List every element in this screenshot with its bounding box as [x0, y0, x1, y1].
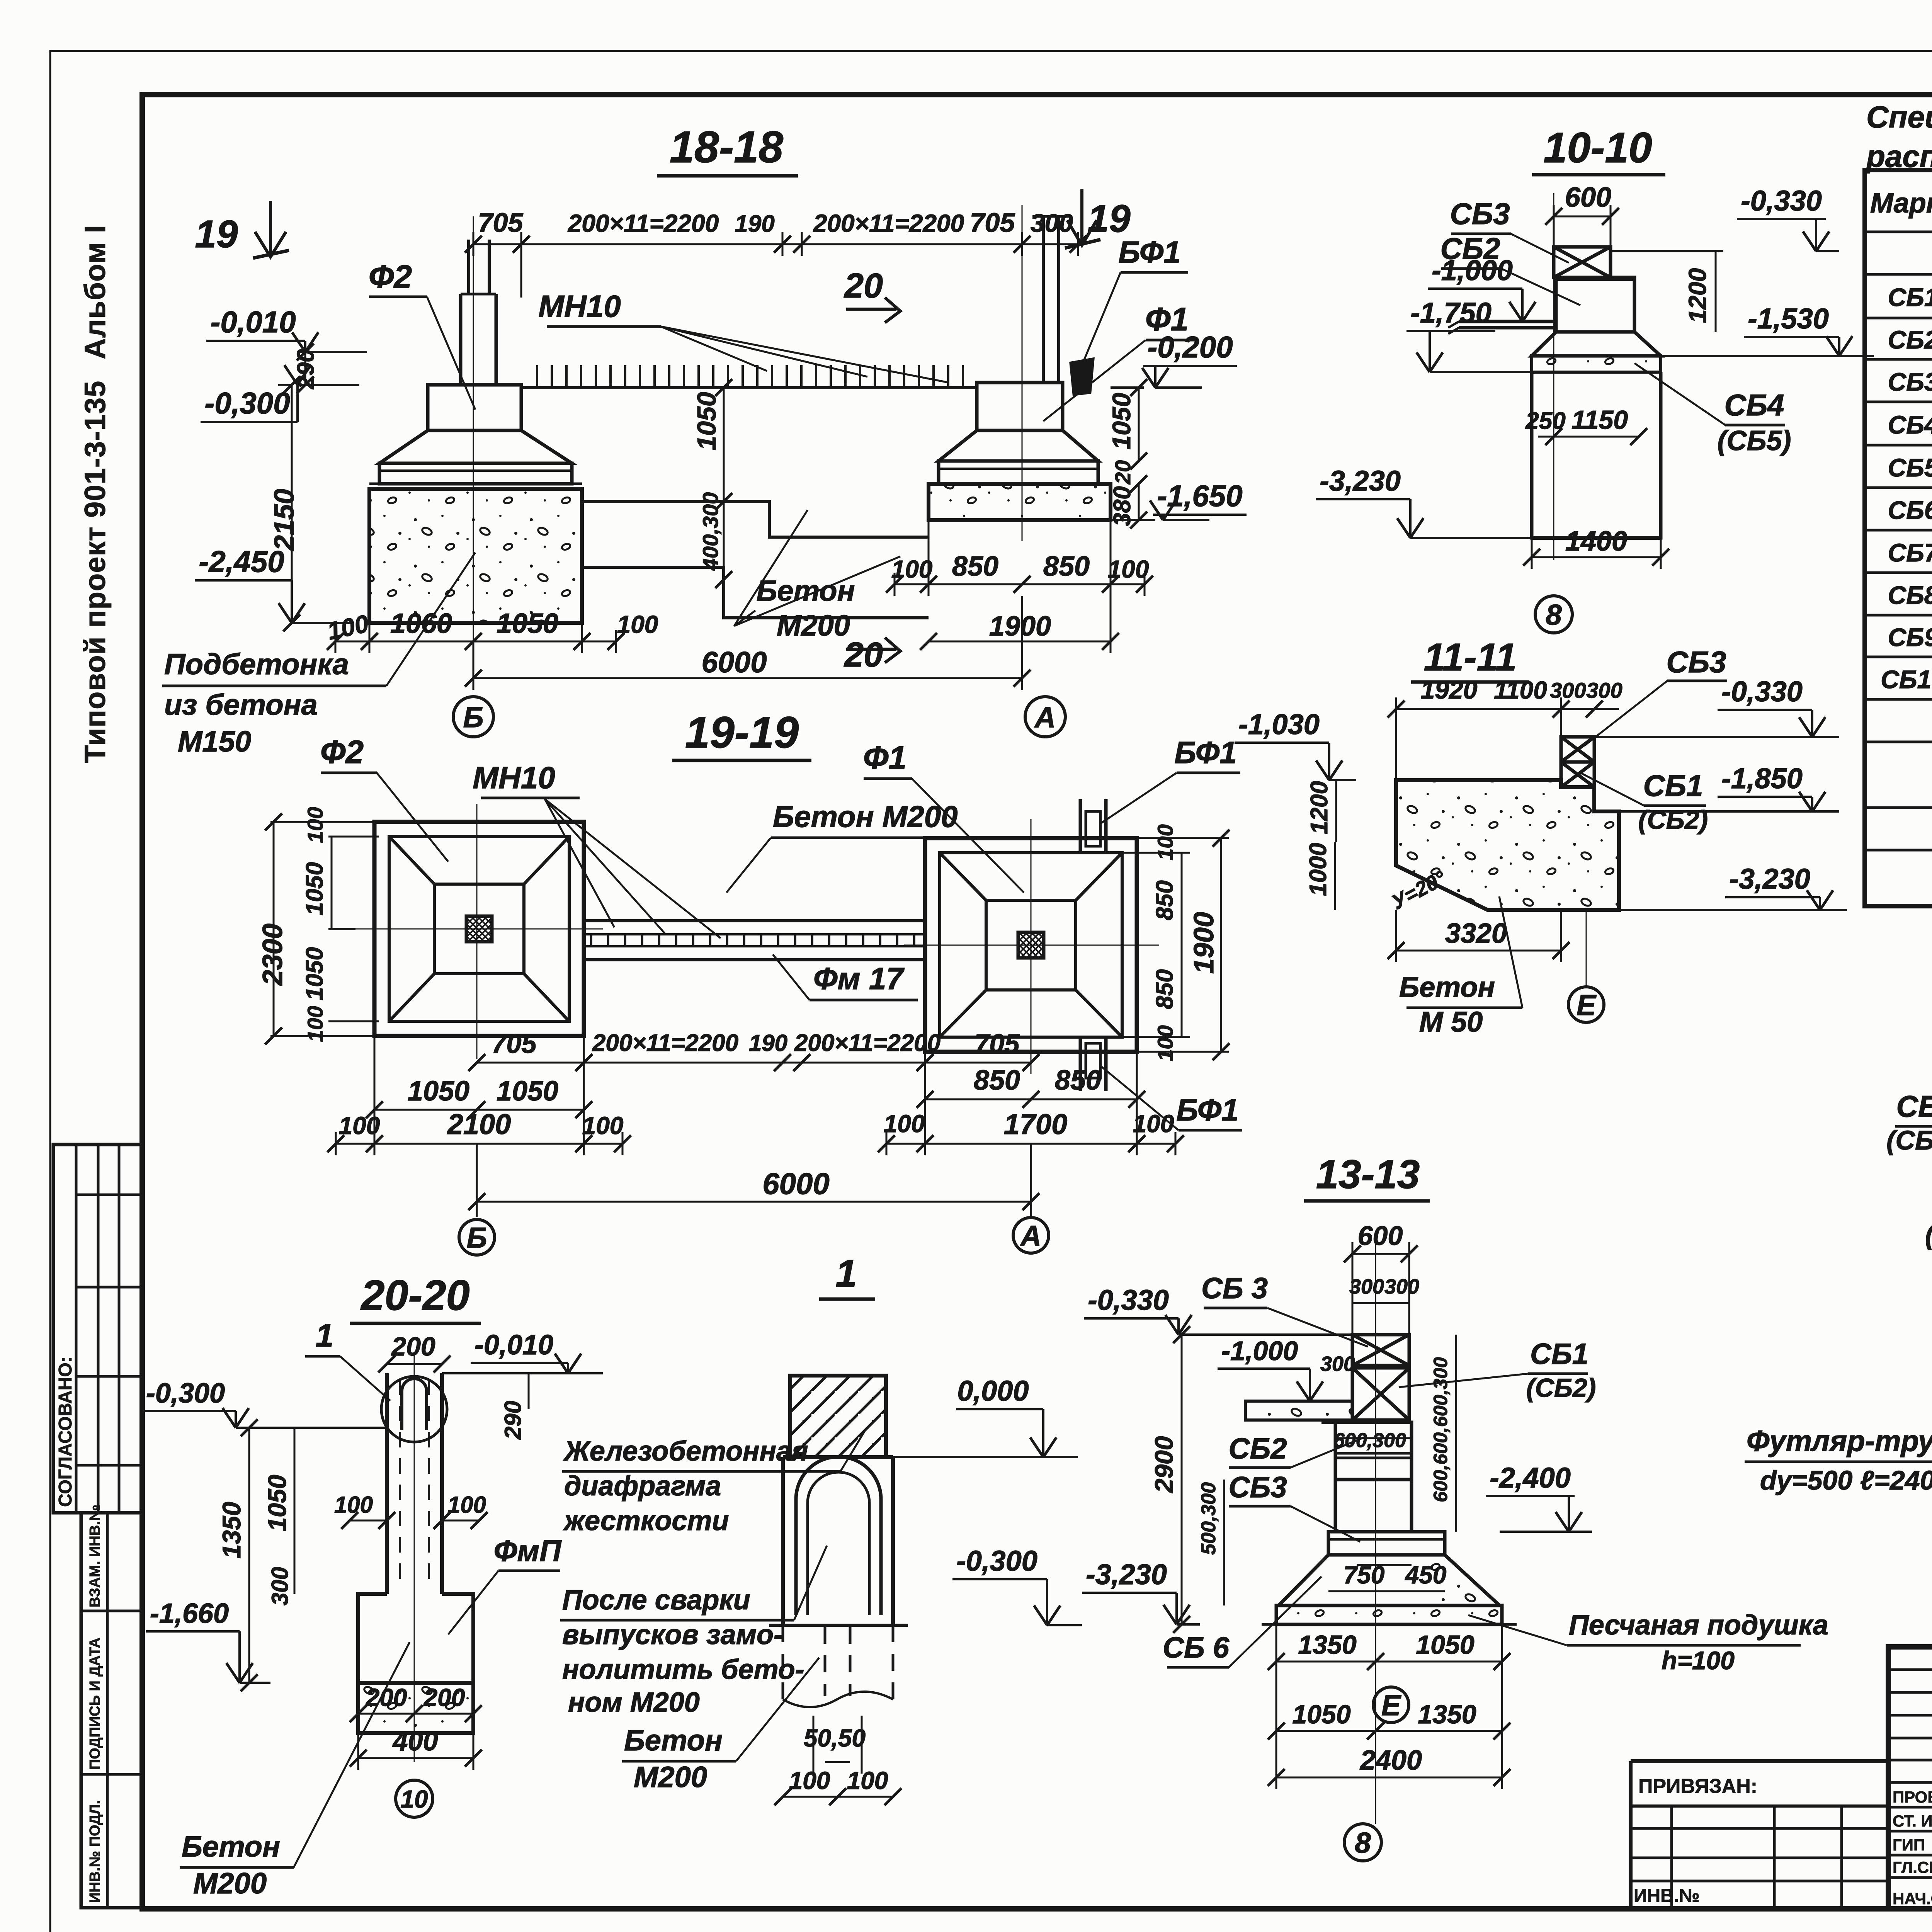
svg-text:850: 850 [1055, 1065, 1101, 1096]
svg-text:МН10: МН10 [538, 289, 621, 323]
svg-text:СБ8: СБ8 [1888, 581, 1932, 609]
svg-text:850: 850 [952, 551, 998, 582]
svg-text:Ф2: Ф2 [369, 259, 412, 295]
svg-text:А: А [1020, 1219, 1041, 1252]
svg-text:-0,200: -0,200 [1147, 330, 1233, 364]
svg-text:750: 750 [1344, 1561, 1385, 1589]
svg-text:СБ4: СБ4 [1725, 388, 1784, 422]
19-19 right column section [1018, 932, 1044, 958]
13-13 crossbox СБ3 top [1352, 1335, 1409, 1366]
11-11 crossbox СБ1 [1561, 737, 1594, 762]
svg-text:СБ1: СБ1 [1888, 283, 1932, 311]
11-11 top dims [1396, 708, 1561, 710]
19-19 dim 100/2100/100 [336, 1143, 374, 1145]
specification table [1865, 170, 1932, 906]
20-20 weld detail circle 1 [381, 1376, 447, 1442]
19-19 centerlines left [476, 804, 478, 1059]
detail 1 column with arc [783, 1455, 893, 1459]
svg-text:6000: 6000 [762, 1167, 830, 1201]
svg-text:1050: 1050 [1416, 1630, 1474, 1660]
svg-text:2900: 2900 [1150, 1436, 1178, 1493]
13-13 dim 600 top [1352, 1253, 1409, 1255]
svg-text:СТ. ИНЖ.: СТ. ИНЖ. [1893, 1812, 1932, 1830]
svg-text:300: 300 [1586, 678, 1622, 702]
svg-text:850: 850 [1043, 551, 1090, 582]
svg-text:h=100: h=100 [1662, 1646, 1735, 1675]
10-10 bottom dims [1538, 436, 1554, 438]
svg-text:ПОДПИСЬ И ДАТА: ПОДПИСЬ И ДАТА [87, 1638, 103, 1770]
svg-text:Ф2: Ф2 [320, 734, 364, 770]
svg-text:dу=500 ℓ=2400: dу=500 ℓ=2400 [1760, 1465, 1932, 1495]
svg-text:ГЛ.СПЕЦ: ГЛ.СПЕЦ [1893, 1858, 1932, 1876]
20-20 column [385, 1373, 389, 1594]
svg-text:10: 10 [400, 1785, 428, 1813]
svg-text:-3,230: -3,230 [1086, 1558, 1167, 1590]
svg-text:Б: Б [463, 701, 483, 733]
svg-text:8: 8 [1546, 599, 1562, 631]
svg-text:1900: 1900 [989, 611, 1051, 642]
svg-text:М150: М150 [178, 725, 251, 758]
svg-text:ном М200: ном М200 [568, 1687, 700, 1718]
svg-text:ГИП: ГИП [1893, 1836, 1925, 1854]
svg-text:СБ9: СБ9 [1888, 623, 1932, 651]
svg-text:Б: Б [466, 1221, 487, 1254]
18-18 foundation F1 (right, axis А) [929, 484, 1111, 520]
svg-text:1: 1 [316, 1317, 334, 1354]
svg-text:1920: 1920 [1421, 675, 1478, 704]
svg-text:600,600,600,300: 600,600,600,300 [1430, 1357, 1451, 1502]
left margin stamp box ИНВ/ПОДПИСЬ [81, 1513, 142, 1908]
svg-text:Фм 17: Фм 17 [813, 961, 905, 996]
svg-text:1050: 1050 [497, 1076, 558, 1107]
18-18 bottom dims right block [895, 583, 929, 585]
18-18 MH10 anchor ticks row [521, 386, 977, 389]
svg-text:СБ3: СБ3 [1229, 1471, 1287, 1504]
20-20 dims top [387, 1363, 442, 1365]
18-18 bottom dims left block [335, 641, 369, 643]
svg-text:жесткости: жесткости [563, 1505, 729, 1536]
privyazan box [1631, 1759, 1888, 1763]
svg-text:3320: 3320 [1445, 918, 1507, 949]
svg-text:(СБ2): (СБ2) [1526, 1373, 1596, 1403]
svg-text:Бетон: Бетон [757, 575, 855, 607]
svg-text:Е: Е [1381, 1689, 1401, 1721]
svg-text:-3,230: -3,230 [1320, 465, 1401, 497]
svg-text:100: 100 [884, 1110, 925, 1138]
svg-text:190: 190 [735, 211, 774, 237]
svg-text:СБ10: СБ10 [1881, 665, 1932, 694]
svg-text:200×11=2200: 200×11=2200 [592, 1030, 738, 1056]
svg-text:200×11=2200: 200×11=2200 [794, 1030, 940, 1056]
11-11 concrete mass [1396, 780, 1619, 910]
svg-text:БФ1: БФ1 [1174, 735, 1237, 770]
20-20 bottom dims [358, 1713, 414, 1715]
10-10 floor slab left [1459, 320, 1556, 323]
svg-text:705: 705 [970, 207, 1015, 238]
svg-text:СБ 6: СБ 6 [1163, 1631, 1230, 1664]
svg-text:Спецификация элементов к марки: Спецификация элементов к маркировочным с… [1866, 100, 1932, 134]
svg-text:250: 250 [1525, 408, 1565, 434]
svg-text:-0,300: -0,300 [204, 386, 290, 420]
svg-text:СБ4: СБ4 [1888, 410, 1932, 439]
20-20 axis circle 10 [396, 1780, 433, 1817]
13-13 plate СБ6 and footing [1328, 1532, 1445, 1555]
svg-text:1350: 1350 [1298, 1630, 1356, 1660]
svg-text:Футляр-труба: Футляр-труба [1747, 1425, 1932, 1458]
svg-text:850: 850 [1151, 880, 1178, 920]
detail 1 squiggle break line [783, 1692, 893, 1707]
svg-text:500,300: 500,300 [1197, 1482, 1220, 1555]
19-19 connecting beam [584, 919, 925, 922]
10-10 trapezoid [1532, 332, 1661, 356]
svg-text:100: 100 [1153, 824, 1177, 860]
18-18 axis circle А [1025, 697, 1065, 737]
10-10 plate band [1532, 356, 1661, 372]
svg-text:705: 705 [478, 207, 524, 238]
svg-text:(СБ2): (СБ2) [1638, 805, 1708, 835]
left margin stamp box СОГЛАСОВАНО [53, 1145, 142, 1513]
detail 1 wall hatched [790, 1376, 886, 1457]
10-10 crossbox СБ3 [1554, 247, 1611, 277]
svg-text:18-18: 18-18 [670, 122, 783, 172]
13-13 bottom dims [1276, 1661, 1376, 1663]
svg-text:400,300: 400,300 [698, 492, 723, 571]
svg-text:1200: 1200 [1306, 781, 1333, 834]
10-10 axis circle 8 [1535, 596, 1572, 633]
svg-text:Бетон М200: Бетон М200 [773, 799, 957, 833]
svg-text:Альбом I: Альбом I [79, 224, 112, 359]
svg-text:100: 100 [447, 1492, 486, 1518]
svg-text:13-13: 13-13 [1316, 1152, 1420, 1197]
svg-text:из бетона: из бетона [164, 689, 318, 721]
svg-text:300: 300 [1320, 1352, 1355, 1376]
svg-text:БФ1: БФ1 [1118, 235, 1181, 269]
svg-text:290: 290 [500, 1401, 526, 1440]
svg-text:300: 300 [1384, 1275, 1419, 1298]
18-18 bottom dim 6000 [473, 677, 1022, 679]
svg-text:600: 600 [1565, 182, 1611, 213]
18-18 top dimension row [473, 243, 521, 245]
19-19 axis circles [459, 1219, 495, 1255]
svg-text:600: 600 [1358, 1221, 1403, 1251]
svg-text:2100: 2100 [447, 1108, 511, 1140]
svg-text:ВЗАМ. ИНВ.№: ВЗАМ. ИНВ.№ [87, 1505, 103, 1607]
svg-text:ИНВ.№ ПОДЛ.: ИНВ.№ ПОДЛ. [87, 1800, 103, 1903]
svg-text:400: 400 [392, 1726, 438, 1756]
svg-text:М 50: М 50 [1419, 1006, 1483, 1038]
svg-text:1050: 1050 [301, 947, 328, 1000]
svg-text:1150: 1150 [1571, 405, 1628, 435]
10-10 block СБ2 [1556, 277, 1634, 332]
svg-text:-0,300: -0,300 [146, 1378, 225, 1409]
svg-text:1700: 1700 [1004, 1108, 1068, 1140]
svg-text:19: 19 [195, 213, 238, 256]
svg-text:СБ6: СБ6 [1888, 496, 1932, 524]
svg-text:СБ3: СБ3 [1888, 367, 1932, 396]
svg-text:1350: 1350 [1418, 1700, 1476, 1729]
svg-text:ПРОВЕР.: ПРОВЕР. [1893, 1788, 1932, 1806]
svg-text:705: 705 [492, 1029, 537, 1059]
svg-text:100: 100 [1153, 1025, 1177, 1061]
svg-text:19-19: 19-19 [685, 708, 799, 757]
svg-text:М200: М200 [777, 609, 850, 642]
svg-text:-1,750: -1,750 [1410, 297, 1492, 329]
svg-text:8: 8 [1355, 1827, 1371, 1859]
svg-text:-0,010: -0,010 [474, 1330, 553, 1361]
svg-text:СБ2: СБ2 [1440, 231, 1500, 265]
svg-text:СБ3: СБ3 [1667, 645, 1726, 679]
svg-text:-0,300: -0,300 [956, 1545, 1037, 1577]
svg-text:ПРИВЯЗАН:: ПРИВЯЗАН: [1638, 1775, 1757, 1798]
svg-text:20: 20 [844, 267, 883, 305]
svg-text:Бетон: Бетон [624, 1724, 723, 1757]
svg-text:850: 850 [974, 1065, 1020, 1096]
svg-text:нолитить бето-: нолитить бето- [562, 1654, 804, 1685]
20-20 dims 100/100 [350, 1520, 387, 1522]
svg-text:100: 100 [334, 1492, 373, 1518]
svg-text:19: 19 [1087, 197, 1131, 240]
svg-text:0,000: 0,000 [957, 1375, 1029, 1407]
svg-text:1050: 1050 [692, 392, 721, 450]
svg-text:600,300: 600,300 [1333, 1429, 1406, 1452]
svg-text:СОГЛАСОВАНО:: СОГЛАСОВАНО: [55, 1356, 76, 1507]
svg-text:А: А [1034, 701, 1056, 733]
19-19 bottom dim row 705/2200 [477, 1062, 584, 1064]
svg-text:200: 200 [391, 1332, 435, 1361]
svg-text:-2,400: -2,400 [1490, 1462, 1571, 1494]
svg-text:-0,330: -0,330 [1741, 185, 1822, 217]
svg-text:СБ2: СБ2 [1888, 325, 1932, 354]
svg-text:100: 100 [617, 611, 658, 638]
svg-text:-1,850: -1,850 [1721, 762, 1803, 794]
18-18 foundation F2 (left, axis Б) [369, 489, 582, 623]
svg-text:Железобетонная: Железобетонная [563, 1436, 808, 1467]
10-10 dim 600 [1554, 216, 1611, 218]
20-20 bottom slab [358, 1683, 473, 1733]
svg-text:300: 300 [1349, 1275, 1384, 1298]
svg-text:1100: 1100 [1494, 676, 1547, 704]
svg-text:300: 300 [1550, 678, 1586, 702]
svg-text:ФмП: ФмП [494, 1534, 562, 1568]
18-18 BF1 element marker [1071, 359, 1093, 394]
svg-text:10-10: 10-10 [1543, 124, 1652, 172]
svg-text:Песчаная подушка: Песчаная подушка [1569, 1610, 1828, 1641]
18-18 axis circle Б [453, 697, 493, 737]
svg-text:М200: М200 [193, 1867, 267, 1900]
20-20 footing [358, 1594, 473, 1683]
svg-text:1050: 1050 [1292, 1700, 1350, 1729]
13-13 left slab [1245, 1401, 1352, 1420]
svg-text:300: 300 [267, 1567, 293, 1605]
svg-text:Подбетонка: Подбетонка [164, 648, 349, 681]
svg-text:11-11: 11-11 [1424, 636, 1517, 679]
svg-text:СБ7: СБ7 [1888, 538, 1932, 567]
19-19 left column section [466, 916, 492, 942]
svg-text:1: 1 [835, 1252, 857, 1295]
13-13 blocks СБ2/СБ3 [1335, 1422, 1412, 1480]
svg-text:СБ1: СБ1 [1896, 1089, 1932, 1123]
svg-text:СБ 3: СБ 3 [1201, 1272, 1268, 1305]
svg-text:-0,330: -0,330 [1088, 1284, 1169, 1316]
svg-text:1050: 1050 [263, 1475, 291, 1531]
svg-text:(СБ5): (СБ5) [1718, 425, 1791, 456]
svg-text:1350: 1350 [217, 1502, 246, 1558]
svg-text:диафрагма: диафрагма [564, 1471, 721, 1502]
svg-text:Е: Е [1577, 989, 1597, 1021]
svg-text:6000: 6000 [701, 646, 767, 679]
svg-text:300: 300 [1031, 209, 1073, 237]
10-10 lower block [1532, 372, 1661, 538]
19-19 dim 6000 [477, 1201, 1031, 1203]
svg-text:200: 200 [423, 1684, 465, 1711]
18-18 step lines between foundations [582, 502, 929, 537]
svg-text:МН10: МН10 [473, 760, 555, 795]
svg-text:-1,530: -1,530 [1748, 303, 1829, 335]
19-19 left footing plan (Ф2) [374, 822, 584, 1036]
svg-text:100: 100 [1108, 555, 1149, 583]
svg-text:Марка: Марка [1870, 188, 1932, 219]
svg-text:450: 450 [1405, 1561, 1447, 1589]
19-19 BF1 strip through right footing [1079, 799, 1082, 853]
svg-text:(СБ5): (СБ5) [1925, 1220, 1932, 1250]
svg-text:-3,230: -3,230 [1729, 863, 1810, 895]
svg-text:выпусков замо-: выпусков замо- [562, 1619, 783, 1650]
svg-text:-0,010: -0,010 [210, 305, 296, 339]
svg-text:20-20: 20-20 [360, 1272, 469, 1319]
13-13 crossbox СБ1 [1352, 1368, 1409, 1420]
19-19 right footing plan (Ф1) [925, 838, 1137, 1052]
19-19 dim 1050/1050 850/850 [374, 1109, 477, 1111]
svg-text:СБ3: СБ3 [1450, 197, 1510, 231]
svg-text:100: 100 [1133, 1110, 1174, 1138]
svg-text:190: 190 [749, 1030, 787, 1056]
svg-text:1050: 1050 [1107, 393, 1136, 449]
11-11 axis circle Е [1568, 987, 1604, 1022]
13-13 inner dims [1335, 1437, 1412, 1439]
svg-text:НАЧ.ОТД.: НАЧ.ОТД. [1893, 1889, 1932, 1908]
svg-text:СБ1: СБ1 [1643, 769, 1703, 803]
svg-text:200×11=2200: 200×11=2200 [813, 209, 964, 237]
svg-text:1900: 1900 [1189, 912, 1219, 974]
svg-text:2150: 2150 [269, 489, 300, 551]
svg-text:Ф1: Ф1 [863, 740, 906, 776]
svg-text:(СБ2): (СБ2) [1886, 1125, 1932, 1155]
title block [1888, 1647, 1932, 1909]
svg-text:1050: 1050 [408, 1076, 469, 1107]
svg-text:М200: М200 [634, 1761, 707, 1794]
svg-text:2400: 2400 [1359, 1745, 1422, 1776]
svg-text:1200: 1200 [1684, 268, 1711, 323]
svg-text:Типовой проект 901-3-135: Типовой проект 901-3-135 [79, 381, 112, 763]
svg-text:100: 100 [847, 1767, 888, 1794]
svg-text:1050: 1050 [301, 862, 328, 915]
svg-text:100: 100 [891, 555, 933, 583]
svg-text:705: 705 [975, 1029, 1020, 1059]
svg-text:ИНВ.№: ИНВ.№ [1634, 1886, 1700, 1906]
svg-text:-1,660: -1,660 [150, 1598, 229, 1629]
svg-text:-1,030: -1,030 [1238, 708, 1320, 740]
svg-text:СБ5: СБ5 [1888, 453, 1932, 482]
svg-text:200×11=2200: 200×11=2200 [568, 209, 719, 237]
svg-text:850: 850 [1151, 969, 1178, 1009]
svg-text:100: 100 [582, 1112, 624, 1139]
svg-text:СБ2: СБ2 [1229, 1432, 1287, 1465]
13-13 axis circles [1373, 1687, 1409, 1723]
svg-text:1050: 1050 [497, 608, 558, 639]
svg-text:-0,330: -0,330 [1721, 675, 1803, 707]
svg-text:1000: 1000 [1305, 843, 1332, 896]
19-19 dim 100/1700/100 right [886, 1143, 925, 1145]
svg-text:Бетон: Бетон [1399, 971, 1495, 1003]
svg-text:100: 100 [789, 1767, 830, 1794]
svg-text:СБ1: СБ1 [1530, 1338, 1588, 1371]
11-11 bottom dim 3320 [1396, 950, 1561, 952]
svg-text:Бетон: Бетон [182, 1830, 280, 1863]
svg-text:После сварки: После сварки [562, 1585, 750, 1616]
13-13 bottom slab [1276, 1605, 1502, 1624]
svg-text:100: 100 [303, 807, 327, 843]
svg-text:20: 20 [1111, 460, 1135, 485]
svg-text:1400: 1400 [1565, 526, 1627, 557]
svg-text:-1,000: -1,000 [1221, 1336, 1298, 1366]
svg-text:БФ1: БФ1 [1176, 1093, 1239, 1127]
